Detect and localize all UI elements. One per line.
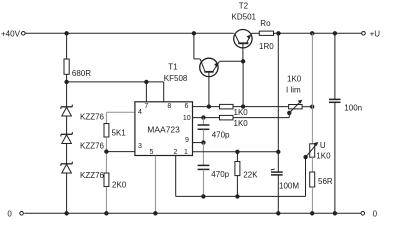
svg-text:KZZ76: KZZ76 (80, 141, 105, 150)
node junction ground 100n (333, 212, 336, 215)
node junction 680R / pin7 line (65, 80, 68, 83)
svg-text:1: 1 (184, 149, 188, 156)
wire 5K1 to 2K0 (105, 137, 107, 173)
ground rail (24, 212, 361, 214)
node junction ground pin 5 (154, 212, 157, 215)
svg-text:0: 0 (7, 209, 12, 218)
wire pin 2 horizontal (176, 195, 306, 197)
node junction T2 base (241, 60, 244, 63)
diode zener D2 KZZ76 (61, 132, 72, 143)
wire T1 base down to pin 6 line (208, 72, 210, 107)
svg-text:8: 8 (167, 103, 171, 110)
svg-text:680R: 680R (72, 69, 91, 78)
svg-text:KD501: KD501 (232, 12, 257, 21)
wire pin 5 to ground (154, 156, 156, 214)
wire divider vertical upper (311, 33, 313, 144)
node junction pin 9 / caps (202, 141, 205, 144)
svg-text:KF508: KF508 (164, 74, 188, 83)
svg-text:1K0: 1K0 (287, 74, 302, 83)
node junction pot right on divider line (311, 105, 314, 108)
node junction pin1 / 100M line (277, 150, 280, 153)
svg-text:56R: 56R (318, 177, 333, 186)
svg-text:4: 4 (138, 109, 142, 116)
svg-text:7: 7 (144, 103, 148, 110)
svg-text:Ro: Ro (260, 19, 271, 28)
svg-text:T2: T2 (239, 2, 249, 11)
svg-text:22K: 22K (243, 171, 258, 180)
node junction ground diode chain (65, 212, 68, 215)
resistor R 680R (64, 59, 69, 74)
capacitor 100n (329, 99, 341, 213)
svg-text:KZZ76: KZZ76 (80, 113, 105, 122)
wire pin 1 line (193, 151, 279, 153)
capacitor 470p lower (198, 143, 210, 197)
wire D2-D3 (66, 144, 68, 164)
resistor 2K0 (104, 173, 109, 187)
svg-text:1K0: 1K0 (316, 152, 331, 161)
node junction 100n top (333, 32, 336, 35)
svg-text:470p: 470p (212, 131, 230, 140)
terminal 0 right (361, 212, 365, 216)
terminal 0 left (20, 212, 24, 216)
wire divider top (105, 112, 107, 123)
svg-text:+U: +U (370, 29, 381, 38)
svg-text:1R0: 1R0 (259, 42, 274, 51)
node junction ground 100M (277, 212, 280, 215)
svg-text:U: U (320, 141, 326, 150)
capacitor 100M electrolytic (271, 169, 283, 213)
svg-text:I lim: I lim (286, 86, 301, 95)
wire pin 4 to divider (106, 111, 134, 113)
svg-text:T1: T1 (168, 62, 178, 71)
node junction I lim wiper (288, 111, 291, 114)
node junction U wiper (304, 155, 307, 158)
svg-text:0: 0 (373, 209, 378, 218)
node junction pin7 (145, 80, 148, 83)
wire T2 emitter to Ro (251, 32, 259, 34)
resistor 1K0 on pin6 line (220, 104, 234, 109)
wire T1 emitter to T2 base node (219, 60, 243, 62)
wire top rail right segment (273, 32, 361, 34)
wire D1-D2 (66, 116, 68, 134)
wire pin 9 (193, 142, 204, 144)
wire 680R top lead (66, 33, 68, 59)
svg-text:KZZ76: KZZ76 (80, 171, 105, 180)
node junction top rail at 680R (65, 32, 68, 35)
node junction top rail at T1 collector (192, 32, 195, 35)
node junction T2 base line on pin 6 line (241, 105, 244, 108)
svg-text:3: 3 (138, 143, 142, 150)
wire D3 to ground rail (66, 173, 68, 213)
svg-text:5: 5 (150, 149, 154, 156)
node junction 470p bottom (202, 195, 205, 198)
wire pot U to 56R (311, 157, 313, 172)
terminal +U (362, 32, 366, 36)
svg-text:MAA723: MAA723 (147, 124, 180, 134)
transistor Q1 T1 KF508 (200, 58, 220, 76)
svg-text:10: 10 (183, 115, 191, 122)
wire pin 10 line left (193, 117, 220, 119)
resistor 22K (235, 152, 240, 197)
resistor Ro 1R0 (259, 31, 273, 35)
wire 100n vertical (334, 33, 336, 99)
wire 2K0 to ground rail (105, 187, 107, 214)
capacitor 470p upper (198, 118, 210, 143)
wire horizontal 680R to pins 7,8 (67, 81, 164, 83)
svg-text:1K0: 1K0 (234, 119, 249, 128)
svg-text:6: 6 (184, 103, 188, 110)
wire T1 collector to top rail (193, 33, 195, 59)
transistor Q2 T2 KD501 (234, 30, 252, 48)
wire pin 8 (163, 82, 165, 102)
resistor 56R (310, 172, 315, 187)
wire output sense line down (277, 33, 279, 171)
node junction 22K bottom (236, 195, 239, 198)
svg-text:9: 9 (185, 137, 189, 144)
terminal +40V (22, 32, 26, 36)
diode zener D1 KZZ76 (61, 105, 72, 116)
node junction ground 2K0 (105, 212, 108, 215)
wire top rail left segment (25, 32, 234, 34)
svg-text:1K0: 1K0 (234, 108, 249, 117)
node junction divider top (311, 32, 314, 35)
svg-text:+40V: +40V (1, 29, 21, 38)
svg-text:470p: 470p (211, 170, 229, 179)
resistor 1K0 on pin10 line (220, 115, 234, 120)
potentiometer U 1K0 (306, 142, 319, 157)
wire 56R to ground (311, 187, 313, 213)
potentiometer I lim 1K0 (289, 100, 313, 113)
wire pin 7 (145, 82, 147, 102)
wire pin 3 (106, 151, 134, 153)
wire pin 6 line left (193, 106, 220, 108)
resistor 5K1 (104, 124, 109, 138)
wire T2 base down (242, 43, 244, 61)
node junction Ro output (277, 32, 280, 35)
diode zener D3 KZZ76 (61, 162, 72, 173)
wire pin 10 line right (233, 117, 289, 119)
node junction 22K top (236, 150, 239, 153)
svg-text:2: 2 (173, 149, 177, 156)
node junction T1 base on pin 6 line (207, 105, 210, 108)
wire 680R bottom lead (66, 74, 68, 107)
wire pin 6 line right (233, 106, 289, 108)
wire up to pot U wiper (305, 157, 307, 196)
wire up to I lim wiper (288, 113, 290, 118)
node junction ground 56R (311, 212, 314, 215)
node junction 470p top (202, 116, 205, 119)
wire pin 2 down (175, 156, 177, 197)
op-amp U1 MAA723 box (135, 102, 193, 156)
svg-text:100M: 100M (279, 182, 299, 191)
svg-text:100n: 100n (344, 104, 362, 113)
node junction pin 3 (105, 150, 108, 153)
svg-text:2K0: 2K0 (112, 181, 127, 190)
svg-text:5K1: 5K1 (112, 128, 127, 137)
